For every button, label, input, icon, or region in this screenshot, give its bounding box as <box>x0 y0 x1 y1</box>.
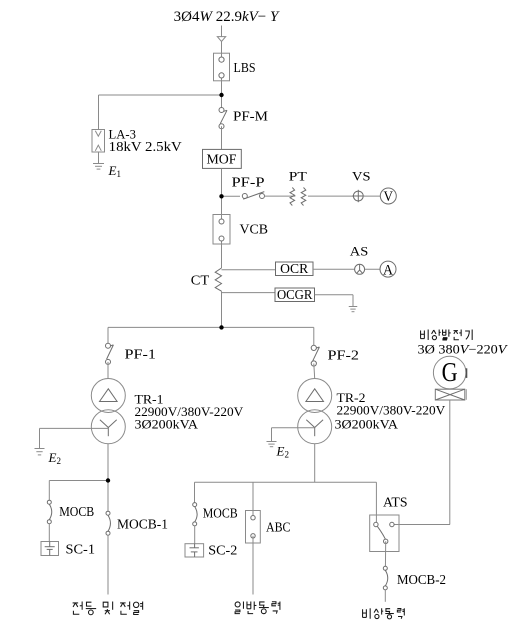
svg-text:OCGR: OCGR <box>277 287 313 302</box>
svg-text:VS: VS <box>352 169 371 184</box>
svg-text:3Ø 380V−220V: 3Ø 380V−220V <box>418 342 509 356</box>
svg-text:PF-2: PF-2 <box>328 348 360 363</box>
svg-text:3Ø200kVA: 3Ø200kVA <box>335 418 399 432</box>
svg-text:TR-2: TR-2 <box>337 390 366 405</box>
svg-text:SC-2: SC-2 <box>208 543 237 558</box>
svg-text:PF-1: PF-1 <box>125 347 157 362</box>
svg-text:MOCB-1: MOCB-1 <box>117 517 168 532</box>
svg-text:VCB: VCB <box>240 222 269 237</box>
svg-text:PF-M: PF-M <box>233 109 268 124</box>
svg-text:22900V/380V-220V: 22900V/380V-220V <box>337 404 446 418</box>
svg-text:MOCB-2: MOCB-2 <box>397 572 446 587</box>
svg-text:G: G <box>442 357 458 387</box>
svg-text:ABC: ABC <box>266 520 291 535</box>
svg-text:ATS: ATS <box>383 495 408 510</box>
svg-text:A: A <box>383 262 393 278</box>
svg-text:3Ø200kVA: 3Ø200kVA <box>135 418 199 432</box>
svg-text:AS: AS <box>350 245 369 259</box>
svg-text:LBS: LBS <box>234 60 256 75</box>
svg-text:MOF: MOF <box>207 153 237 168</box>
svg-text:SC-1: SC-1 <box>66 542 96 557</box>
svg-text:CT: CT <box>191 273 210 288</box>
svg-text:OCR: OCR <box>280 261 308 276</box>
svg-text:3Ø4W 22.9kV− Y: 3Ø4W 22.9kV− Y <box>174 9 280 25</box>
svg-text:MOCB: MOCB <box>59 504 94 519</box>
svg-text:PT: PT <box>289 169 307 184</box>
svg-text:18kV 2.5kV: 18kV 2.5kV <box>109 139 182 154</box>
svg-text:PF-P: PF-P <box>232 175 265 190</box>
svg-text:MOCB: MOCB <box>203 506 238 521</box>
svg-text:V: V <box>384 189 394 205</box>
